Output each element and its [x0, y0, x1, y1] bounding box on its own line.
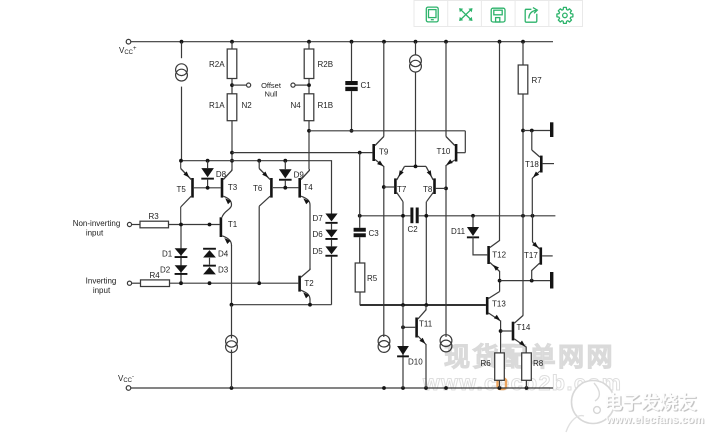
wire T17 base stub: [542, 255, 553, 257]
svg-text:R5: R5: [367, 274, 378, 283]
svg-text:T9: T9: [379, 148, 389, 157]
svg-text:T8: T8: [423, 185, 433, 194]
svg-text:C3: C3: [369, 229, 380, 238]
transistor T8: [426, 166, 436, 201]
junction dots on Vcc+ rail: [180, 40, 525, 44]
wire R8 to rail: [526, 380, 528, 388]
svg-text:N4: N4: [291, 101, 302, 110]
wire rail to R7: [522, 42, 524, 65]
junction dot T18 collector on line y130.5: [530, 129, 534, 133]
wire roof T7-T8 emitters: [405, 165, 427, 167]
svg-text:T7: T7: [397, 185, 407, 194]
wire D8 cathode to base bus: [207, 179, 209, 188]
capacitor C2: [410, 208, 418, 224]
svg-text:Non-inverting: Non-inverting: [73, 219, 121, 228]
transistor T5: [181, 169, 194, 208]
wire T10 base loop vertical: [464, 131, 466, 153]
svg-text:T10: T10: [437, 147, 451, 156]
resistor R8: [522, 353, 532, 380]
junction dot roof center: [414, 165, 418, 169]
transistor T10: [446, 137, 457, 166]
junction dots mid line right: [424, 214, 534, 218]
wire line B to D9: [284, 161, 286, 170]
wire input to R3: [132, 224, 140, 226]
diode D10: [397, 346, 409, 357]
transistor T4: [298, 169, 310, 212]
transistor T6: [259, 169, 273, 207]
wire T6 collector up to line B: [258, 161, 260, 169]
junction dot C1 on line C: [350, 129, 354, 133]
svg-text:T13: T13: [492, 300, 506, 309]
wire rail to R2B: [308, 42, 310, 49]
svg-text:R2A: R2A: [209, 60, 225, 69]
svg-text:D4: D4: [218, 250, 229, 259]
wire I2 to Vcc- rail: [231, 350, 233, 388]
transistor T2: [298, 269, 310, 300]
svg-text:R4: R4: [150, 271, 161, 280]
wire mid line right of C2: [419, 215, 556, 217]
wire line A horizontal y152: [232, 152, 372, 154]
diode D3 (reversed): [203, 265, 216, 275]
wire I1 to node B: [181, 87, 183, 161]
junction dot T14 base tap: [499, 329, 503, 333]
wire T11 collector up: [425, 305, 427, 310]
junction dots mid line left: [358, 214, 405, 218]
svg-text:D3: D3: [218, 266, 229, 275]
current source I1: [176, 64, 188, 81]
svg-text:D11: D11: [451, 227, 466, 236]
wire C1 to node C: [351, 91, 353, 131]
wire R1A down to T3: [231, 121, 233, 171]
svg-text:T6: T6: [253, 184, 263, 193]
svg-text:T11: T11: [419, 320, 433, 329]
wire T18 collector up: [531, 131, 533, 151]
junction dot node C start: [307, 129, 311, 133]
wire to offset null left terminal: [232, 84, 246, 86]
junction dots on R3 line: [179, 223, 211, 227]
watermark: elecfans logo circle: [566, 381, 615, 433]
wire D6 to D5: [331, 240, 333, 247]
wire rail down to T12 collector: [499, 42, 501, 241]
wire rail to current source I1: [181, 42, 183, 59]
resistor R1B: [304, 94, 314, 121]
current source I3: [410, 55, 422, 72]
wire rail to current source I3: [415, 42, 417, 55]
wire R3 to T1 base: [169, 224, 220, 226]
junction dot output line start: [498, 279, 502, 283]
terminal Vcc+: [126, 39, 131, 44]
wire base bus T6-T4: [273, 187, 299, 189]
wire T11 base lead: [403, 326, 415, 328]
wire offset null right terminal to R1B top: [295, 84, 309, 86]
watermark: orange logo mark: [498, 379, 507, 390]
wire T8 collector down x426: [425, 202, 427, 305]
junction dot T7 base tap: [382, 185, 386, 189]
svg-text:R7: R7: [532, 76, 543, 85]
wire D11 to T12 base: [473, 237, 487, 255]
wire R4 to T2 base: [170, 282, 299, 284]
diode D8: [201, 168, 214, 179]
svg-text:D7: D7: [313, 214, 324, 223]
wire R2B to R1B: [308, 79, 310, 94]
wire emitter node to tail current source: [231, 305, 233, 339]
wire D5 down to emitter line corner: [331, 257, 333, 305]
junction dots on Vcc- rail: [230, 386, 529, 390]
transistor T9: [372, 137, 383, 167]
svg-text:D5: D5: [313, 247, 324, 256]
junction dots on x523 column: [521, 129, 525, 133]
wire T2 emitter down: [309, 299, 311, 305]
svg-text:T5: T5: [177, 185, 187, 194]
wire D4 to D3: [209, 258, 211, 265]
wire R7 down long column x523: [522, 94, 524, 316]
transistor T7: [394, 166, 404, 201]
junction dots on base line: [401, 303, 428, 307]
resistor R4: [141, 280, 170, 287]
svg-text:D2: D2: [160, 266, 171, 275]
toolbar icon fullscreen arrows: [459, 8, 472, 21]
junction dot offset null left: [230, 83, 234, 87]
wire column T5 collector/emitter x181: [180, 161, 182, 225]
junction dot D8 base bus: [206, 186, 210, 190]
toolbar icon settings gear: [557, 7, 573, 23]
svg-text:input: input: [86, 229, 104, 238]
svg-text:T12: T12: [492, 251, 506, 260]
wire T7 base lead: [384, 186, 394, 188]
wire input to R4: [132, 282, 141, 284]
junction dot T11 base tap: [401, 325, 405, 329]
wire D10 column: [402, 305, 404, 388]
current source I5: [440, 335, 452, 352]
svg-text:C2: C2: [408, 225, 419, 234]
svg-text:R2B: R2B: [318, 60, 334, 69]
diode D4 (reversed): [203, 248, 216, 258]
resistor R3: [140, 221, 169, 228]
terminal Vcc-: [126, 386, 131, 391]
power rail Vcc+ (top wire): [129, 41, 554, 43]
transistor T13: [486, 292, 501, 322]
svg-text:D10: D10: [408, 358, 423, 367]
diode D9: [279, 169, 292, 181]
wire C3 to R5: [359, 237, 361, 263]
transistor T18: [532, 150, 543, 178]
wire output line y130.5: [523, 130, 550, 132]
current source I2 (input tail): [226, 335, 238, 352]
wire D9 cathode to base bus: [284, 180, 286, 188]
terminal inverting input: [127, 281, 131, 285]
toolbar icon save: [491, 8, 505, 22]
wire R2A to R1A with offset tap: [231, 79, 233, 94]
wire T10 collector to rail: [445, 42, 447, 137]
svg-text:电子发烧友: 电子发烧友: [604, 392, 697, 413]
power rail Vcc- (bottom wire): [129, 387, 554, 389]
resistor R2A: [227, 49, 237, 79]
transistor T3: [221, 170, 232, 218]
junction dot offset null right: [307, 83, 311, 87]
wire T10 emitter down x446: [445, 165, 447, 337]
wire T17 emitter down to output line: [531, 270, 533, 281]
pin bar output 2: [550, 272, 553, 289]
junction dot D9 base bus: [283, 186, 287, 190]
toolbar panel: [414, 1, 583, 27]
resistor R1A: [227, 94, 237, 121]
resistor R5: [355, 263, 365, 292]
wire R6 to rail: [499, 380, 501, 388]
wire base bus T5-T3: [194, 187, 221, 189]
wire T14 base lead: [501, 330, 512, 332]
diode D6: [325, 230, 337, 240]
wire T13 emitter down to R6: [500, 321, 502, 353]
wire rail to R2A: [231, 42, 233, 49]
wire T17 collector up to mid line: [532, 216, 534, 242]
wire I3 down to T7/T8 emitters: [415, 72, 417, 166]
wire line A down to C3: [359, 153, 361, 228]
pin bar output 1: [550, 122, 553, 137]
svg-text:T1: T1: [228, 220, 238, 229]
svg-text:R6: R6: [481, 359, 492, 368]
wire T2 collector up to T4: [309, 212, 311, 270]
svg-text:T4: T4: [303, 183, 313, 192]
wire rail to C1: [351, 42, 353, 81]
wire T18 base stub: [543, 163, 554, 165]
terminal Offset Null left: [247, 83, 251, 87]
wire emitter line y305: [232, 304, 332, 306]
svg-text:T3: T3: [228, 183, 238, 192]
wire T14 emitter to R8: [525, 347, 527, 353]
svg-text:T14: T14: [517, 323, 531, 332]
wire T8 base lead: [436, 187, 446, 189]
resistor R7: [518, 65, 528, 94]
wire D1-D2 column x181: [180, 225, 182, 284]
wire R5 down to base line: [359, 292, 361, 305]
diode D1: [175, 248, 188, 258]
transistor T14: [512, 316, 526, 348]
resistor R2B: [304, 49, 314, 79]
transistor T11: [415, 310, 426, 345]
transistor T17: [532, 242, 542, 271]
transistor T1: [220, 217, 232, 245]
wire R1B down to T4 collector: [308, 121, 310, 169]
svg-text:N2: N2: [242, 101, 253, 110]
wire T6 emitter down to inverting line: [258, 206, 260, 283]
wire T9 emitter down x383.8: [383, 166, 385, 337]
svg-text:Null: Null: [265, 90, 278, 99]
wire line B horizontal y161: [181, 161, 332, 214]
diode D7: [325, 214, 337, 224]
junction dot T17 emitter on output line: [530, 279, 534, 283]
svg-text:T18: T18: [525, 160, 539, 169]
svg-text:D1: D1: [162, 250, 173, 259]
svg-text:T2: T2: [304, 279, 314, 288]
wire mid line down to D11: [472, 216, 474, 227]
current source I4: [378, 335, 390, 352]
capacitor C3: [354, 228, 366, 237]
junction dot T8 base tap: [444, 187, 448, 191]
wire line B to D8: [207, 161, 209, 168]
toolbar icon share: [525, 8, 537, 23]
wire C3 node to mid line: [360, 215, 411, 217]
svg-text:www.elecfans.com: www.elecfans.com: [605, 414, 704, 426]
wire T7 collector down x403: [402, 202, 404, 305]
junction dots line B: [179, 159, 287, 163]
wire T13 base line y305: [360, 304, 486, 306]
wire line C horizontal y131: [309, 130, 465, 132]
wire T12 emitter down: [499, 271, 501, 292]
svg-text:T17: T17: [524, 251, 538, 260]
svg-text:input: input: [93, 286, 111, 295]
capacitor C1: [345, 81, 357, 91]
terminal Offset Null right: [291, 83, 295, 87]
svg-text:C1: C1: [361, 81, 372, 90]
svg-text:R3: R3: [149, 212, 160, 221]
svg-text:R1B: R1B: [318, 101, 334, 110]
transistor T12: [487, 241, 499, 272]
wire output line y280.6: [500, 280, 550, 282]
wire T9 collector to rail: [383, 42, 385, 137]
diode D11: [467, 227, 479, 238]
svg-text:R1A: R1A: [209, 101, 225, 110]
terminal non-inverting input: [127, 222, 131, 226]
resistor R6: [495, 353, 505, 380]
wire T10 base lead: [457, 152, 465, 154]
toolbar icon mobile preview: [426, 7, 438, 22]
junction dots emitter line: [230, 303, 312, 307]
wire T18 emitter down to mid line: [531, 178, 533, 216]
diode D5: [325, 246, 337, 256]
junction dots x232 on lines A and B: [230, 151, 234, 163]
svg-text:D6: D6: [313, 230, 324, 239]
wire D1 to D2: [180, 258, 182, 265]
junction dots on inverting line: [179, 281, 261, 285]
wire T11 emitter to rail: [425, 344, 427, 388]
svg-text:R8: R8: [533, 359, 544, 368]
diode D2: [175, 265, 188, 275]
junction dot line A to C3 column: [358, 151, 362, 155]
wire T1 emitter down x231.5: [231, 245, 233, 305]
svg-text:Inverting: Inverting: [86, 277, 117, 286]
wire D7 to D6: [331, 224, 333, 230]
